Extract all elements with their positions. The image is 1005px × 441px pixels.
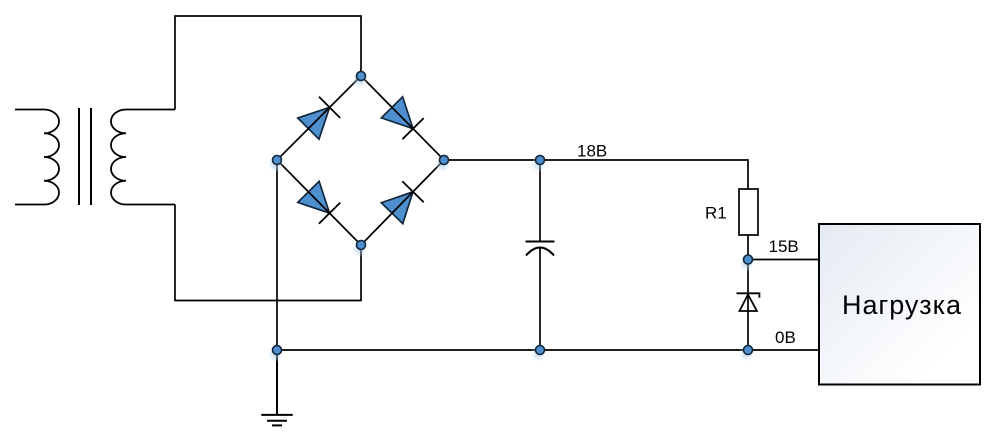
node bottom bridge junction xyxy=(352,241,368,258)
wire capacitor top lead xyxy=(539,160,541,242)
wire secondary bottom to bridge bottom node xyxy=(175,205,361,301)
zener diode VD1 xyxy=(737,293,760,311)
resistor R1 xyxy=(739,189,758,235)
transformer T1 primary winding xyxy=(15,110,59,205)
svg-text:Нагрузка: Нагрузка xyxy=(842,290,962,320)
load box Нагрузка xyxy=(819,224,980,385)
wire capacitor bottom lead xyxy=(539,247,541,350)
capacitor C1 xyxy=(526,242,555,256)
node ground junction on 0V rail xyxy=(268,346,284,363)
diode D1 bridge upper-left xyxy=(298,97,340,139)
wire resistor bottom through zener to 0V rail xyxy=(747,235,749,350)
ground xyxy=(261,350,292,425)
node zener bottom junction on 0V rail xyxy=(739,346,755,363)
wire bridge diamond edges xyxy=(277,76,444,245)
svg-text:R1: R1 xyxy=(705,204,727,223)
diode D2 bridge upper-right xyxy=(381,97,423,139)
wire bridge left node down to 0V rail xyxy=(276,160,278,350)
node 15V junction xyxy=(739,255,755,272)
svg-text:18В: 18В xyxy=(577,142,607,161)
svg-text:15В: 15В xyxy=(769,237,799,256)
diode D4 bridge lower-right xyxy=(381,181,423,223)
wire secondary top to bridge top node xyxy=(175,16,361,110)
node capacitor bottom junction xyxy=(531,346,547,363)
wire 18V rail from bridge right node to resistor xyxy=(444,160,748,189)
svg-text:0В: 0В xyxy=(775,328,796,347)
node 18V capacitor top junction xyxy=(531,156,547,173)
wire 0V rail xyxy=(277,349,819,351)
transformer T1 secondary winding xyxy=(111,110,175,205)
node right bridge junction xyxy=(435,156,451,173)
transformer T1 core xyxy=(79,108,91,205)
wire 15V node to load xyxy=(748,259,819,261)
node top bridge junction xyxy=(352,72,368,89)
node left bridge junction xyxy=(268,156,284,173)
diode D3 bridge lower-left xyxy=(298,181,340,223)
